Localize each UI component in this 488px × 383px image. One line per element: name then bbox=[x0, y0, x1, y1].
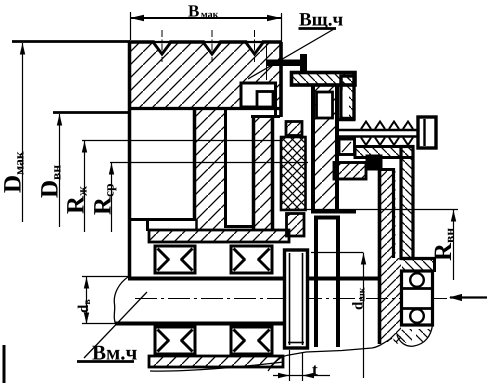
svg-text:t: t bbox=[312, 360, 318, 379]
